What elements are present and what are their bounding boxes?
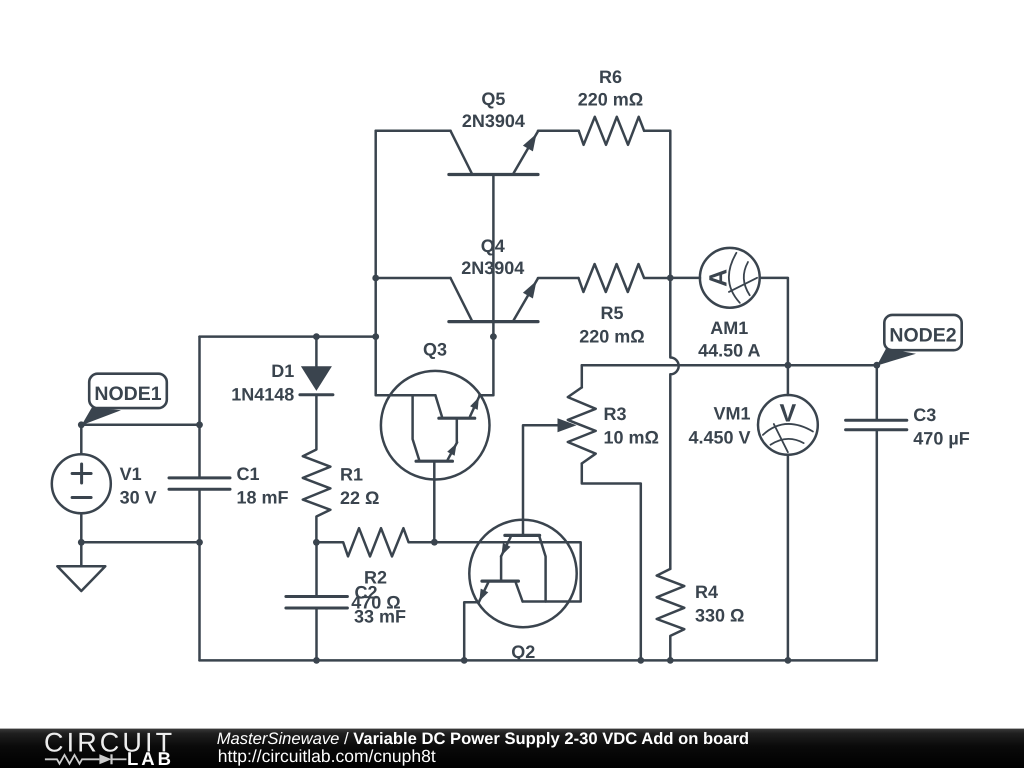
svg-text:C2: C2 [354, 582, 377, 602]
resistor R6 [579, 117, 644, 145]
wire R6 right to output bus [644, 131, 670, 278]
svg-text:220 mΩ: 220 mΩ [578, 89, 643, 109]
svg-text:1N4148: 1N4148 [231, 385, 294, 405]
svg-text:R1: R1 [340, 465, 363, 485]
wire collector bus x376 [374, 131, 377, 337]
wire C1 lower stem x199 [198, 491, 201, 661]
svg-text:2N3904: 2N3904 [461, 258, 524, 278]
svg-text:Q5: Q5 [481, 89, 505, 109]
svg-text:R5: R5 [600, 303, 623, 323]
wire ground rail y660 [200, 659, 877, 662]
wire VM1 top lead [787, 365, 790, 395]
svg-text:R4: R4 [695, 582, 718, 602]
wire base bus to Q3 emitter [479, 337, 493, 396]
resistor R5 [579, 264, 671, 292]
footer bar [0, 728, 1024, 768]
svg-text:Q4: Q4 [481, 236, 505, 256]
wire V1 top lead [80, 425, 83, 455]
wire Q4 emitter to R5 [538, 277, 579, 280]
wire AM1 left lead [670, 277, 700, 280]
logo mini schematic [45, 754, 127, 764]
resistor R2 [316, 528, 434, 556]
wire V1 bottom lead [80, 513, 83, 542]
wire C3 top stem [876, 365, 879, 419]
svg-text:LAB: LAB [127, 748, 174, 768]
wire VM1 bottom lead [787, 455, 790, 661]
capacitor C1 plates [169, 478, 230, 489]
resistor R4 [657, 569, 685, 661]
wire C2 bottom stem [315, 610, 318, 661]
svg-text:R6: R6 [599, 67, 622, 87]
potentiometer R3 body [568, 387, 596, 463]
transistor Q5 [449, 131, 538, 175]
darlington Q2 [469, 520, 576, 627]
transistor Q4 [449, 278, 538, 322]
svg-text:NODE1: NODE1 [94, 383, 161, 405]
svg-text:33 mF: 33 mF [354, 606, 406, 626]
svg-text:AM1: AM1 [710, 318, 748, 338]
svg-text:220 mΩ: 220 mΩ [579, 326, 644, 346]
wire output node y365 [582, 364, 877, 367]
wire C1 upper stem x199 [198, 337, 201, 477]
svg-text:2N3904: 2N3904 [462, 111, 525, 131]
svg-text:D1: D1 [271, 361, 294, 381]
svg-text:http://circuitlab.com/cnuph8t: http://circuitlab.com/cnuph8t [218, 746, 436, 766]
wire C2 top stem [315, 542, 318, 595]
svg-text:330 Ω: 330 Ω [695, 606, 744, 626]
wire Q2 emitter to ground rail [464, 602, 479, 660]
potentiometer R3 wiper arrow [558, 418, 577, 432]
voltage source V1 [52, 454, 111, 513]
svg-text:NODE2: NODE2 [889, 324, 956, 346]
svg-text:30 V: 30 V [120, 487, 157, 507]
wire input rail y336 [200, 335, 376, 338]
wire Q3 collector from rail [376, 337, 436, 396]
ammeter AM1 [700, 248, 760, 308]
wire Q3 base stem [433, 463, 436, 542]
resistor R1 [303, 395, 331, 543]
wire Q5 collector lead [376, 130, 451, 133]
svg-text:44.50 A: 44.50 A [698, 340, 760, 360]
wire NODE1 to C1 y425 [81, 424, 199, 427]
svg-text:10 mΩ: 10 mΩ [604, 428, 659, 448]
wire R3 wiper to Q2 base [523, 425, 558, 534]
svg-text:18 mF: 18 mF [237, 487, 289, 507]
voltmeter VM1 [758, 395, 818, 455]
wire R3 top lead [581, 365, 584, 387]
svg-text:V1: V1 [120, 464, 142, 484]
svg-text:C3: C3 [913, 405, 936, 425]
capacitor C3 plates [846, 420, 907, 429]
wire Q4 collector lead [376, 277, 451, 280]
node flag NODE1 [82, 374, 167, 426]
svg-text:22 Ω: 22 Ω [340, 488, 379, 508]
wire D1 anode stem [315, 337, 318, 367]
wire Q3 base wrap to Q2 collector [434, 542, 580, 601]
svg-text:V: V [780, 400, 797, 428]
wire C3 bottom stem [876, 431, 879, 660]
svg-text:A: A [704, 269, 732, 287]
svg-text:4.450 V: 4.450 V [688, 428, 750, 448]
darlington Q3 [381, 371, 490, 480]
svg-text:VM1: VM1 [713, 404, 750, 424]
capacitor C2 plates [286, 597, 348, 609]
wire ground stem [80, 542, 83, 566]
wire AM1 right lead [760, 278, 788, 365]
node flag NODE2 [877, 315, 962, 366]
svg-text:470 µF: 470 µF [913, 428, 969, 448]
wire Q5 emitter to R6 [538, 130, 579, 133]
ground [57, 566, 105, 591]
diode D1 [300, 366, 333, 394]
svg-text:Q3: Q3 [423, 339, 447, 359]
wire base bus x493 [492, 175, 495, 337]
svg-text:Q2: Q2 [511, 642, 535, 662]
svg-text:C1: C1 [237, 464, 260, 484]
wire output bus x670 with hop [670, 278, 678, 569]
wire V1 minus to C1 y542 [81, 541, 199, 544]
svg-text:R3: R3 [604, 404, 627, 424]
wire R3 bottom jog [582, 464, 641, 661]
